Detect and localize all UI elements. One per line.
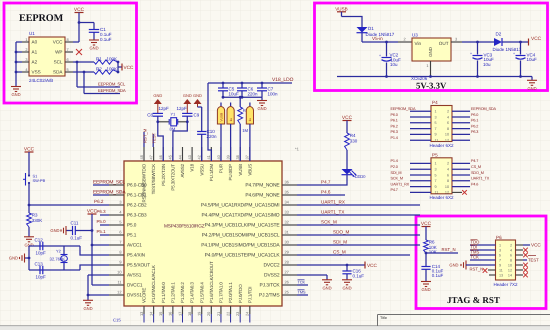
svg-text:9: 9 [435, 133, 437, 137]
svg-text:GND: GND [153, 93, 162, 98]
svg-text:JTAG & RST: JTAG & RST [447, 295, 500, 305]
svg-text:Y1: Y1 [171, 112, 176, 117]
capacitor C16 0.1uF [342, 265, 364, 280]
JTAG header P6 [494, 235, 519, 287]
svg-text:P1.5/TA0.4: P1.5/TA0.4 [199, 282, 204, 303]
svg-text:P4.7: P4.7 [391, 188, 398, 192]
ground below R3 [24, 227, 34, 247]
svg-text:100K: 100K [107, 56, 118, 61]
svg-text:P6.1: P6.1 [391, 119, 398, 123]
net label P5.0 on U1 pin5 [97, 219, 110, 225]
svg-text:12pF: 12pF [159, 106, 170, 111]
svg-text:39: 39 [225, 155, 230, 159]
svg-text:D1: D1 [368, 26, 374, 31]
svg-text:VCORE: VCORE [142, 288, 147, 303]
svg-text:19: 19 [197, 312, 202, 316]
svg-text:A2: A2 [32, 59, 38, 64]
wire VUSB to D1 [342, 17, 363, 28]
svg-text:SCK_M: SCK_M [391, 177, 403, 181]
svg-text:3: 3 [499, 248, 501, 252]
svg-text:16: 16 [168, 312, 173, 316]
svg-text:V18_LDO: V18_LDO [272, 77, 294, 83]
capacitor C5 10uF [218, 83, 239, 97]
svg-text:+: + [470, 51, 472, 55]
P4 right wires with net labels [452, 107, 496, 140]
svg-text:P1.0/TA0CLK/ACLK: P1.0/TA0CLK/ACLK [151, 265, 156, 303]
svg-text:P1.6/TA1CLK/CBOUT: P1.6/TA1CLK/CBOUT [209, 261, 214, 303]
svg-text:AVCC1: AVCC1 [127, 243, 142, 248]
svg-text:31: 31 [285, 230, 289, 235]
svg-text:P6.2: P6.2 [471, 124, 478, 128]
svg-text:6: 6 [67, 57, 69, 62]
svg-text:P4.5/PM_UCA1RXD/PM_UCA1SOMI: P4.5/PM_UCA1RXD/PM_UCA1SOMI [201, 203, 280, 209]
U1 left pin stubs and numbers [109, 180, 150, 298]
svg-text:VUSB: VUSB [219, 113, 223, 122]
svg-text:TCK: TCK [298, 280, 306, 284]
svg-text:P5.2/XT2IN: P5.2/XT2IN [161, 164, 166, 186]
svg-text:43: 43 [187, 155, 192, 159]
svg-text:32: 32 [285, 220, 289, 225]
P6 pin11 stub with no-connect [483, 268, 496, 273]
svg-text:P6.1: P6.1 [471, 119, 478, 123]
net EEPROM_SCL wire [76, 61, 126, 87]
svg-text:18: 18 [187, 312, 192, 316]
svg-text:11: 11 [117, 280, 121, 285]
wire crystal right to XT2OUT pin [173, 122, 187, 161]
svg-text:P5: P5 [432, 152, 438, 157]
svg-text:UART1_RX: UART1_RX [391, 182, 410, 186]
net TEST rotated label on pin47 [152, 132, 157, 147]
svg-text:17: 17 [177, 312, 182, 316]
ground to JTAG header pin9 [449, 261, 495, 272]
svg-text:GND: GND [421, 287, 430, 292]
wires TDO TDI TMS TCK to P6 [470, 240, 496, 260]
diode D2 1N5817 [493, 31, 522, 52]
wire VCC to U2 pin8 [73, 21, 80, 42]
VCC power port right of R1 R2 [117, 61, 134, 74]
ground GND2 above C9 [183, 93, 192, 114]
svg-text:220n: 220n [248, 92, 259, 97]
svg-text:1u: 1u [229, 118, 233, 122]
mcu U1 MSP430F5510IRGZ body [124, 161, 282, 306]
svg-text:SDO_M: SDO_M [333, 229, 350, 234]
svg-text:13: 13 [139, 312, 144, 316]
svg-text:SW-PB: SW-PB [33, 178, 46, 183]
svg-text:P6.3-CB3: P6.3-CB3 [127, 213, 147, 218]
capacitor C12 10pF [35, 237, 47, 255]
svg-text:P6.3: P6.3 [391, 130, 398, 134]
svg-text:R1: R1 [96, 56, 102, 61]
svg-text:RST_M: RST_M [143, 128, 148, 143]
svg-text:7: 7 [67, 47, 69, 52]
svg-text:13: 13 [499, 273, 503, 277]
svg-text:32.768K: 32.768K [50, 256, 66, 261]
net TCK label on PJ.3 [297, 280, 308, 285]
net RST_N wire [425, 247, 458, 255]
ground below C7 [257, 97, 267, 111]
EEPROM section title [19, 13, 64, 24]
svg-text:GND: GND [257, 106, 266, 111]
wire U3 OUT to VCC [451, 36, 494, 43]
svg-text:10: 10 [445, 133, 449, 137]
svg-text:P4.7: P4.7 [471, 159, 478, 163]
capacitor C1 0.1uF [79, 23, 112, 42]
svg-text:C8: C8 [147, 113, 153, 118]
svg-text:27: 27 [285, 270, 289, 275]
svg-text:23: 23 [235, 312, 240, 316]
svg-text:P2.0: P2.0 [391, 165, 398, 169]
svg-text:UART1_TX: UART1_TX [321, 209, 344, 214]
VCC power port above U2 [74, 7, 85, 23]
svg-text:4: 4 [510, 248, 512, 252]
svg-text:AVSS2: AVSS2 [180, 163, 185, 177]
svg-text:P1.1/TA0.0: P1.1/TA0.0 [161, 282, 166, 303]
title block lines [378, 315, 550, 327]
resistor R3 100K [27, 205, 43, 227]
svg-text:GND: GND [428, 47, 433, 57]
ferrite bead FB3 on VBUS [246, 103, 253, 162]
svg-text:P5.1: P5.1 [127, 233, 137, 238]
ferrite bead FB1 on PUR [217, 103, 224, 162]
svg-text:GND: GND [50, 228, 59, 233]
wire AVSS1 DVSS1 to ground [87, 275, 109, 300]
svg-text:C9: C9 [194, 113, 200, 118]
capacitor C14 0.1uF [421, 253, 443, 281]
VCC power port for AVCC [87, 208, 98, 230]
svg-text:36: 36 [285, 180, 289, 185]
svg-text:1u: 1u [248, 118, 252, 122]
svg-text:GND: GND [83, 306, 92, 311]
regulator U3 XC6206 [411, 33, 451, 82]
svg-text:42: 42 [197, 155, 202, 159]
svg-text:33: 33 [285, 210, 289, 215]
svg-text:VCC: VCC [367, 263, 378, 268]
svg-text:26: 26 [285, 280, 289, 285]
svg-text:1: 1 [435, 110, 437, 114]
svg-text:29: 29 [285, 250, 289, 255]
no-ERC marker [295, 147, 300, 152]
svg-text:48: 48 [139, 155, 144, 159]
wire DVCC2 to VCC [297, 262, 378, 269]
svg-text:EEPROM: EEPROM [19, 13, 64, 24]
svg-text:SDO_M: SDO_M [471, 171, 484, 175]
header P4 6x2 [430, 100, 455, 148]
svg-text:P4.7: P4.7 [321, 179, 331, 184]
svg-text:35: 35 [285, 190, 289, 195]
ground for U2 bus [11, 84, 21, 97]
svg-text:25: 25 [285, 290, 289, 295]
svg-text:7: 7 [435, 127, 437, 131]
net SDO_M wire [297, 229, 420, 235]
capacitor C11 0.1uF [66, 221, 92, 241]
svg-text:2: 2 [404, 36, 406, 41]
resistor R4 330 [345, 133, 358, 169]
crystal Y2 element [50, 249, 68, 263]
capacitor VC3 10uF [470, 42, 494, 77]
net label V5-in [372, 36, 383, 41]
ground left of C11 [50, 226, 66, 235]
svg-text:P6.3: P6.3 [97, 209, 107, 214]
svg-text:UART1_RX: UART1_RX [321, 199, 345, 204]
svg-text:P5.1: P5.1 [97, 229, 107, 234]
svg-text:TEST/SBWTCK: TEST/SBWTCK [151, 164, 156, 194]
svg-text:MSP430F5510IRGZ: MSP430F5510IRGZ [164, 224, 205, 230]
svg-text:3: 3 [435, 168, 437, 172]
svg-text:VCC: VCC [53, 39, 63, 44]
svg-text:Header 7X2: Header 7X2 [494, 282, 519, 287]
net SCK_M wire [297, 219, 420, 225]
ground symbol of 5V section [527, 77, 537, 91]
svg-text:P6.3: P6.3 [471, 130, 478, 134]
svg-text:22: 22 [225, 312, 230, 316]
svg-text:CS_M: CS_M [471, 165, 481, 169]
svg-text:9: 9 [499, 263, 501, 267]
svg-text:+: + [379, 53, 381, 57]
svg-text:37: 37 [245, 155, 250, 159]
capacitor C10 220n [197, 107, 217, 161]
svg-text:15: 15 [158, 312, 163, 316]
svg-text:VCC: VCC [531, 243, 541, 248]
EEPROM section boundary box [4, 3, 137, 103]
wire AVCC1 DVCC1 [91, 229, 109, 285]
svg-text:VBUS: VBUS [247, 164, 252, 176]
svg-text:10uF: 10uF [527, 57, 538, 62]
svg-text:1: 1 [426, 63, 428, 68]
VUSB power port [335, 6, 348, 16]
svg-text:2: 2 [447, 162, 449, 166]
svg-text:4: 4 [447, 168, 449, 172]
svg-text:PJ.3/TCK: PJ.3/TCK [260, 283, 281, 289]
resistor R5 1M [238, 97, 249, 161]
svg-text:5: 5 [435, 121, 437, 125]
wire D1 to U3 Vin [362, 33, 412, 44]
svg-text:8: 8 [510, 258, 512, 262]
net EEPROM_SCL to U1 pin1 [93, 179, 125, 185]
P6 pin13 stub [489, 274, 496, 276]
svg-text:1: 1 [435, 162, 437, 166]
svg-text:PJ.0/TDO: PJ.0/TDO [238, 284, 243, 303]
switch S1 SW-PB [23, 172, 46, 205]
svg-text:EEPROM_SCL: EEPROM_SCL [93, 179, 125, 185]
svg-text:Vin: Vin [415, 41, 422, 46]
svg-text:100n: 100n [268, 92, 279, 97]
svg-text:P1.4: P1.4 [391, 159, 398, 163]
crystal Y2 32.768K loop [28, 246, 109, 270]
svg-text:PU.0/DP: PU.0/DP [228, 164, 233, 181]
net UART1_TX wire [297, 209, 420, 215]
net RST_M rotated label on pin48 [143, 128, 148, 147]
resistor R6 10K [424, 240, 437, 255]
svg-text:C13: C13 [35, 261, 44, 266]
svg-text:5: 5 [435, 173, 437, 177]
svg-text:46: 46 [158, 155, 163, 159]
svg-text:DVSS1: DVSS1 [127, 293, 142, 298]
svg-text:10pF: 10pF [36, 250, 47, 255]
svg-text:P4.6/PM_NONE: P4.6/PM_NONE [245, 193, 280, 199]
svg-text:100K: 100K [107, 66, 118, 71]
P4 left wires with net labels [391, 107, 432, 140]
svg-text:EEPROM_SDA: EEPROM_SDA [93, 189, 126, 195]
svg-text:VSSU: VSSU [199, 164, 204, 176]
svg-text:5V-3.3V: 5V-3.3V [416, 80, 447, 90]
VCC power port above reset switch [24, 146, 35, 172]
net EEPROM_SDA to U1 pin2 [93, 189, 126, 195]
svg-text:PUR: PUR [219, 163, 224, 173]
svg-text:P4.7/PM_NONE: P4.7/PM_NONE [245, 183, 280, 189]
svg-text:0.1uF: 0.1uF [71, 236, 83, 241]
led D3 LED0 [342, 169, 367, 179]
svg-text:12pF: 12pF [177, 106, 188, 111]
svg-text:GND: GND [193, 93, 202, 98]
svg-text:21: 21 [216, 312, 221, 316]
svg-text:Header 6X2: Header 6X2 [430, 195, 455, 200]
svg-text:EEPROM_SCL: EEPROM_SCL [98, 82, 126, 87]
svg-text:220n: 220n [207, 134, 218, 139]
sheet bottom edge and outside canvas [0, 326, 550, 330]
svg-text:VUSB: VUSB [335, 6, 348, 11]
svg-text:RST_N: RST_N [470, 267, 484, 272]
svg-text:*1: *1 [295, 147, 300, 152]
svg-text:P6.0: P6.0 [471, 113, 478, 117]
svg-text:24LC02/A/B: 24LC02/A/B [29, 78, 53, 83]
V18 LDO rail wire [208, 77, 294, 161]
resistor R1 100K on SCL [73, 56, 118, 64]
svg-text:V18: V18 [190, 163, 195, 171]
U1 right pin stubs and numbers [201, 180, 297, 299]
svg-text:47: 47 [148, 155, 153, 159]
U1 bottom pin stubs and numbers [139, 261, 253, 323]
svg-text:3: 3 [455, 36, 457, 41]
svg-text:9: 9 [435, 185, 437, 189]
svg-text:P4.0/PM_UCB1STE/PM_UCA1CLK: P4.0/PM_UCB1STE/PM_UCA1CLK [205, 253, 281, 259]
5V-3.3V section boundary box [315, 3, 548, 91]
svg-text:P4.2/PM_UCB1SOMI/PM_UCB1SCL: P4.2/PM_UCB1SOMI/PM_UCB1SCL [202, 233, 280, 239]
svg-text:6: 6 [447, 121, 449, 125]
reset net wire to U1 pin3 [28, 199, 109, 206]
svg-text:P6.2: P6.2 [94, 199, 104, 204]
crystal Y1 8M [156, 112, 188, 132]
svg-text:28: 28 [285, 260, 289, 265]
svg-text:4: 4 [447, 115, 449, 119]
svg-text:CS_M: CS_M [333, 249, 346, 254]
svg-text:P5.0: P5.0 [97, 219, 107, 224]
svg-text:LED0: LED0 [355, 174, 366, 179]
capacitor C7 100n [257, 83, 278, 97]
svg-text:8: 8 [119, 250, 121, 255]
svg-text:EEPROM_SDA: EEPROM_SDA [471, 107, 496, 111]
svg-text:10u: 10u [483, 62, 491, 67]
svg-text:D2: D2 [496, 31, 502, 36]
ferrite bead FB2 on DP [227, 103, 234, 162]
svg-text:EEPROM_SDA: EEPROM_SDA [98, 88, 126, 93]
svg-text:41: 41 [206, 155, 211, 159]
JTAG & RST section boundary box [416, 216, 546, 309]
VCC power port output [529, 36, 542, 46]
svg-text:R2: R2 [96, 66, 102, 71]
svg-text:3: 3 [435, 115, 437, 119]
svg-text:P1.7/TA1.0: P1.7/TA1.0 [219, 282, 224, 303]
capacitor VC4 10uF [513, 42, 537, 77]
capacitor VC2 10uF [379, 42, 401, 77]
svg-text:A1: A1 [32, 49, 38, 54]
net EEPROM_SDA wire [83, 71, 126, 94]
ground left of crystal [9, 254, 29, 263]
svg-text:5: 5 [67, 67, 69, 72]
svg-text:Header 6X2: Header 6X2 [430, 143, 455, 148]
ground GND1 above C8 [153, 93, 162, 114]
ground rail of regulator [337, 75, 532, 78]
svg-text:6: 6 [119, 230, 121, 235]
wire LED to P4.7 pin [297, 175, 347, 185]
svg-text:6: 6 [447, 173, 449, 177]
P5 right wires with net labels [452, 159, 490, 195]
VCC power port for reset pullup [421, 221, 432, 240]
svg-text:AVSS1: AVSS1 [127, 273, 142, 278]
ground below DVSS1 [83, 300, 93, 311]
svg-text:VSS: VSS [32, 69, 41, 74]
svg-text:1: 1 [25, 37, 27, 42]
svg-text:P1.4: P1.4 [391, 136, 398, 140]
capacitor C8 12pF [147, 106, 169, 122]
wire crystal left to XT2IN pin [158, 122, 163, 161]
resistor R2 100K on SDA [73, 66, 118, 74]
svg-text:P1.3/TA0.2: P1.3/TA0.2 [180, 282, 185, 303]
svg-text:EEPROM_SDA: EEPROM_SDA [391, 107, 416, 111]
svg-text:DVCC2: DVCC2 [264, 263, 280, 269]
svg-text:UART1_TX: UART1_TX [471, 177, 490, 181]
VCC power port above LED [342, 115, 353, 133]
svg-text:P6: P6 [496, 235, 502, 240]
P5 left wires with net labels [391, 159, 432, 192]
svg-text:VCC: VCC [531, 36, 542, 42]
svg-text:TCK: TCK [471, 255, 480, 260]
net label P6.3 on U1 pin4 [97, 209, 110, 215]
svg-text:Y2: Y2 [56, 249, 61, 254]
svg-text:0.1uF: 0.1uF [353, 274, 365, 279]
svg-text:10uF: 10uF [229, 92, 240, 97]
svg-text:P5.0: P5.0 [127, 223, 137, 228]
svg-text:R4: R4 [350, 133, 356, 138]
svg-text:P2.0/TA1.1: P2.0/TA1.1 [228, 282, 233, 303]
P6 right side wires and no-connects [516, 243, 542, 278]
ground below C14 [421, 282, 431, 293]
svg-text:5: 5 [499, 253, 501, 257]
svg-text:0.1uF: 0.1uF [432, 273, 444, 278]
svg-text:5: 5 [119, 220, 121, 225]
svg-text:P1.2/TA0.1: P1.2/TA0.1 [170, 282, 175, 303]
svg-text:P5.3/XT2OUT: P5.3/XT2OUT [170, 164, 175, 191]
svg-text:8: 8 [447, 179, 449, 183]
svg-text:9: 9 [119, 260, 121, 265]
svg-text:OUT: OUT [439, 41, 449, 46]
svg-text:2: 2 [510, 243, 512, 247]
svg-text:1M: 1M [242, 128, 248, 133]
svg-text:C12: C12 [35, 237, 44, 242]
svg-text:8: 8 [447, 127, 449, 131]
capacitor C9 12pF [177, 106, 200, 122]
svg-text:10: 10 [508, 263, 512, 267]
svg-text:PU.1/DM: PU.1/DM [209, 164, 214, 182]
svg-text:P6.0: P6.0 [391, 113, 398, 117]
svg-text:WP: WP [55, 49, 62, 54]
wire D2 to VCC port [503, 41, 529, 44]
svg-text:P4.4/PM_UCA1TXD/PM_UCA1SIMO: P4.4/PM_UCA1TXD/PM_UCA1SIMO [201, 213, 279, 219]
svg-text:14: 14 [508, 273, 512, 277]
wire DVSS2 to ground [297, 275, 332, 290]
svg-text:TEST: TEST [152, 132, 157, 143]
diode D1 1N5817 [357, 26, 395, 37]
svg-text:7: 7 [119, 240, 121, 245]
